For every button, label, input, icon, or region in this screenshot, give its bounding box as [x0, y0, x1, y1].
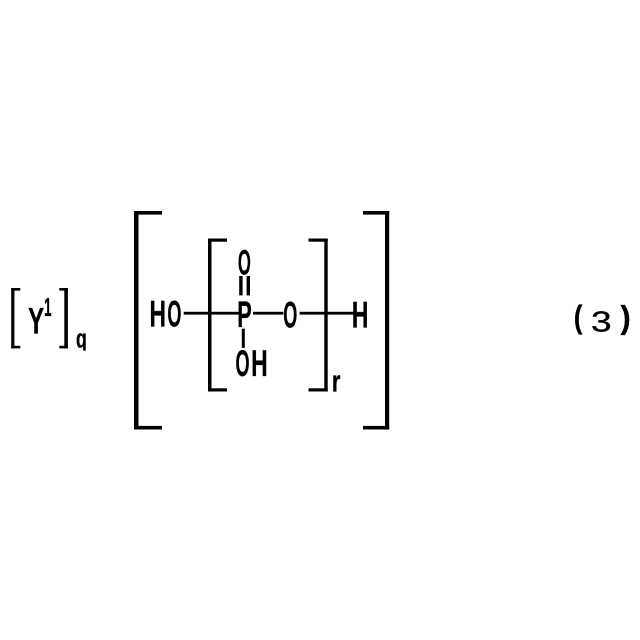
atom OH below [235, 342, 267, 385]
atom P [237, 294, 252, 335]
svg-text:Y: Y [28, 300, 44, 342]
svg-text:H: H [251, 342, 267, 384]
atom HO left [149, 293, 181, 336]
bracket right of Y1 group [59, 288, 68, 348]
atom O right [283, 296, 297, 337]
svg-text:1: 1 [44, 294, 51, 322]
svg-text:H: H [352, 294, 368, 336]
svg-text:O: O [167, 295, 181, 336]
atom O top [238, 243, 251, 283]
svg-text:O: O [283, 296, 297, 337]
svg-text:r: r [332, 364, 341, 398]
svg-text:H: H [149, 293, 165, 335]
outer bracket left [134, 211, 162, 430]
svg-text:q: q [76, 324, 87, 353]
subscript r [332, 364, 341, 398]
bond HO-P [184, 312, 240, 315]
svg-text:3: 3 [591, 306, 612, 338]
bracket left of Y1 group [11, 288, 20, 348]
bond P-O [253, 312, 283, 315]
subscript q [76, 324, 87, 353]
svg-text:(: ( [574, 300, 583, 335]
inner bracket left [208, 239, 227, 392]
outer bracket right [363, 211, 389, 430]
atom Y1 [28, 294, 51, 341]
bond O-H crossing inner bracket [300, 312, 354, 315]
svg-text:): ) [621, 300, 631, 336]
svg-text:O: O [238, 243, 251, 283]
formula number (3) [574, 300, 631, 339]
bond P-OH vertical [242, 329, 245, 348]
atom H right [352, 294, 368, 336]
inner bracket right [309, 239, 328, 392]
double bond P=O [239, 276, 250, 295]
svg-text:O: O [235, 344, 249, 385]
